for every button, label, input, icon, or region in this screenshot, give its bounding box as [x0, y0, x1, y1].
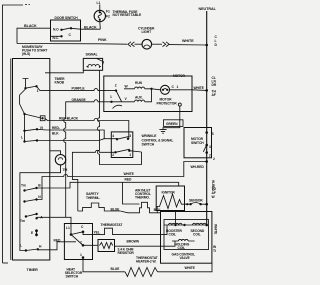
- svg-text:THERMOSTAT: THERMOSTAT: [101, 223, 123, 227]
- console inner line: [10, 59, 12, 261]
- timer contact N: [23, 195, 41, 203]
- timer contact pair3: [23, 139, 104, 143]
- svg-text:HEATER-2 W.: HEATER-2 W.: [136, 260, 157, 264]
- svg-text:F1: F1: [106, 10, 110, 14]
- timer motor TM: [20, 151, 68, 251]
- svg-text:ORANGE: ORANGE: [72, 98, 87, 102]
- svg-text:NEUTRAL: NEUTRAL: [199, 7, 217, 11]
- svg-text:PURPLE: PURPLE: [72, 87, 86, 91]
- svg-text:BLUE: BLUE: [111, 267, 121, 271]
- svg-text:WHITE: WHITE: [213, 224, 217, 235]
- svg-text:YEL: YEL: [94, 231, 100, 235]
- wire wrinkle to safety thermostat: [72, 150, 115, 211]
- svg-text:DOOR SWITCH: DOOR SWITCH: [55, 16, 79, 20]
- wire WHITE to motor switch: [37, 160, 209, 199]
- svg-text:1: 1: [129, 153, 131, 157]
- wire PINK to cylinder light: [17, 38, 127, 44]
- safety thermostat ST: [78, 192, 120, 212]
- svg-text:PROTECTOR: PROTECTOR: [157, 101, 178, 105]
- holding coil: [172, 239, 195, 250]
- svg-text:RED: RED: [125, 178, 132, 182]
- svg-text:RED-BLACK: RED-BLACK: [59, 117, 79, 121]
- igniter box: [156, 186, 184, 211]
- wire BLACK to door switch: [17, 24, 51, 44]
- svg-text:RUN: RUN: [135, 81, 143, 85]
- gas valve main wire: [164, 212, 208, 227]
- wire BLACK door switch to fuse: [81, 26, 101, 30]
- svg-text:WH-RED: WH-RED: [191, 165, 205, 169]
- timer contact Tm-B: [21, 183, 41, 191]
- motor start contact 2: [115, 84, 129, 102]
- svg-text:L: L: [21, 135, 23, 139]
- wire RED-BLK: [37, 126, 117, 139]
- timer box T: [13, 59, 50, 273]
- svg-text:RESISTOR: RESISTOR: [118, 251, 135, 255]
- motor terminal 1: [110, 95, 128, 103]
- svg-text:MOTOR: MOTOR: [173, 74, 186, 78]
- timer cam dots: [31, 229, 38, 236]
- timer contact Tm-A: [20, 213, 43, 223]
- motor switch box: [184, 128, 212, 158]
- wire RED to igniter: [37, 178, 179, 188]
- svg-text:THERMO.: THERMO.: [135, 196, 150, 200]
- svg-text:WHITE: WHITE: [182, 39, 194, 43]
- svg-text:L1: L1: [97, 1, 101, 5]
- ground symbol: [159, 130, 166, 134]
- svg-text:N.O: N.O: [53, 28, 59, 32]
- svg-text:TIMER: TIMER: [27, 268, 39, 272]
- wire BROWN to holding coil: [115, 239, 176, 246]
- timer contact pair1: [23, 113, 45, 121]
- svg-text:F2: F2: [106, 15, 110, 19]
- wire signal to timer: [45, 70, 83, 73]
- booster coil: [166, 223, 183, 236]
- svg-text:WHITE: WHITE: [194, 86, 205, 90]
- svg-text:THERML.: THERML.: [86, 196, 100, 200]
- svg-text:L1: L1: [66, 226, 70, 230]
- svg-text:DR: DR: [212, 83, 217, 87]
- wrinkle switch label: [142, 134, 174, 146]
- motor centrifugal switch arc: [113, 105, 123, 108]
- svg-text:BLACK: BLACK: [24, 24, 37, 28]
- wire GREEN ground: [163, 106, 183, 130]
- motor aux winding: [112, 89, 152, 102]
- wire RED-BLACK: [45, 117, 129, 139]
- svg-text:PINK: PINK: [98, 38, 107, 42]
- svg-text:RED: RED: [54, 238, 61, 242]
- gas valve inner assembly box: [164, 220, 209, 250]
- svg-text:COIL: COIL: [178, 246, 186, 250]
- svg-text:TM: TM: [63, 168, 68, 172]
- cabinet ground frame: [3, 5, 31, 264]
- svg-text:1: 1: [37, 89, 39, 93]
- motor box M: [104, 74, 192, 111]
- svg-text:VALVE: VALVE: [180, 256, 191, 260]
- flame sensor: [185, 199, 209, 206]
- svg-text:(W-S): (W-S): [22, 52, 30, 56]
- svg-text:BROWN: BROWN: [127, 239, 140, 243]
- svg-text:Tm: Tm: [21, 183, 26, 187]
- svg-text:KNOB: KNOB: [55, 80, 65, 84]
- svg-text:1: 1: [177, 85, 179, 89]
- svg-text:SWITCH: SWITCH: [191, 141, 204, 145]
- svg-text:IGNITOR: IGNITOR: [162, 190, 176, 194]
- timer internal rail wire: [20, 89, 26, 142]
- motor run winding: [124, 81, 153, 90]
- timer contact L-H: [20, 244, 42, 252]
- svg-text:2: 2: [213, 157, 215, 161]
- svg-text:2: 2: [115, 84, 117, 88]
- svg-text:2: 2: [209, 154, 211, 158]
- wire signal feed V1: [97, 70, 141, 164]
- svg-text:2: 2: [112, 153, 114, 157]
- svg-text:NOT RESETTABLE: NOT RESETTABLE: [113, 13, 143, 17]
- cylinder light LT: [135, 26, 155, 49]
- svg-text:SIGNAL: SIGNAL: [86, 52, 98, 56]
- timer contact pair2: [21, 126, 43, 140]
- svg-text:1: 1: [80, 253, 82, 257]
- svg-text:BLACK: BLACK: [84, 26, 97, 30]
- connector chevrons right: [152, 42, 170, 47]
- thermal fuse F: [94, 1, 142, 29]
- svg-text:TI: TI: [213, 249, 216, 253]
- wire RED to heat selector L1: [38, 238, 76, 249]
- svg-text:WHITE: WHITE: [124, 172, 135, 176]
- door switch DS: [51, 16, 81, 41]
- svg-text:W-RED: W-RED: [211, 180, 215, 191]
- svg-text:COIL: COIL: [193, 232, 201, 236]
- wire ORANGE to motor aux: [64, 98, 112, 218]
- motor protector MP: [152, 85, 193, 106]
- svg-text:SWITCH: SWITCH: [142, 143, 155, 147]
- wire WHITE motor to neutral: [192, 86, 208, 92]
- operating thermostat: [83, 223, 167, 235]
- signal buzzer SIG: [83, 52, 103, 70]
- svg-text:L: L: [20, 244, 22, 248]
- momentary push to start note: [22, 45, 47, 56]
- wire BLUE to heater: [83, 258, 125, 272]
- svg-text:COIL: COIL: [169, 232, 177, 236]
- svg-text:3: 3: [129, 134, 131, 138]
- svg-text:1: 1: [110, 95, 112, 99]
- timer push-to-start contact: [23, 79, 39, 94]
- gas control valve box: [161, 212, 212, 264]
- svg-text:LIGHT: LIGHT: [142, 30, 152, 34]
- wire PURPLE timer to motor: [37, 86, 117, 90]
- svg-text:3: 3: [209, 145, 211, 149]
- thermostat heater resistor: [125, 268, 158, 277]
- svg-text:4: 4: [112, 134, 114, 138]
- svg-text:SWITCH: SWITCH: [66, 275, 79, 279]
- timer knob label: [55, 77, 66, 85]
- heat selector switch box: [64, 224, 92, 279]
- svg-text:Tm: Tm: [20, 219, 25, 223]
- neutral bus N: [199, 7, 217, 225]
- wire WHITE light to neutral: [169, 39, 208, 46]
- svg-text:AF: AF: [212, 93, 216, 97]
- svg-text:AUX.: AUX.: [135, 95, 143, 99]
- right margin clipped notes: [211, 35, 218, 253]
- svg-text:GREEN: GREEN: [166, 122, 178, 126]
- svg-text:BLK: BLK: [52, 131, 59, 135]
- wire red staircase to air inlet: [123, 182, 140, 204]
- air inlet control thermostat: [120, 188, 161, 212]
- svg-text:WHITE: WHITE: [185, 266, 196, 270]
- secondary coil: [191, 223, 207, 236]
- wire WHITE heater to right: [158, 263, 213, 272]
- resistor 3.4k box: [83, 240, 134, 256]
- svg-text:RED-: RED-: [52, 126, 60, 130]
- thermostat heater label: [136, 256, 158, 264]
- svg-text:SENSOR: SENSOR: [189, 199, 203, 203]
- connector chevrons left: [128, 42, 135, 47]
- wire A to heat selector: [37, 217, 71, 234]
- svg-text:BLUE: BLUE: [111, 207, 121, 211]
- wrinkle control switch box: [111, 132, 141, 158]
